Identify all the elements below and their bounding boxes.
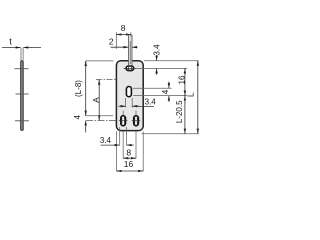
ext bottom <box>142 133 199 135</box>
dim 4 right arrows <box>168 82 170 89</box>
dim 2 line with inward arrows <box>111 46 129 48</box>
A dimension line <box>98 80 100 86</box>
dimension t line with inward arrows <box>2 47 21 49</box>
ext C <box>133 87 172 89</box>
ext lines below middle slot <box>125 98 127 108</box>
ext top hole center <box>136 67 187 69</box>
dim L-20.5 <box>184 96 186 101</box>
ext lines from bottom slot edges <box>119 127 121 145</box>
middle slot (vertical obround) <box>126 87 131 97</box>
dimension t extension lines <box>20 48 22 61</box>
svg-text:3.4: 3.4 <box>100 136 112 145</box>
svg-text:t: t <box>9 37 12 47</box>
dim L <box>197 61 199 66</box>
ext D <box>133 95 187 97</box>
svg-text:3.4: 3.4 <box>145 98 157 107</box>
(L-8) dimension line <box>85 61 87 67</box>
dim 4 left lower arrow <box>85 121 87 133</box>
svg-text:8: 8 <box>126 148 131 158</box>
(L-8) top extension line <box>86 60 114 62</box>
leader to 3.4 label <box>132 105 154 107</box>
bottom slot right <box>132 111 141 126</box>
top hole (obround) <box>124 65 137 71</box>
dim 16 bottom <box>117 170 121 172</box>
svg-text:8: 8 <box>121 23 126 33</box>
dim 8 line <box>116 34 119 36</box>
dim 3.4 middle arrows <box>118 105 125 107</box>
svg-text:16: 16 <box>124 159 134 169</box>
dim 16 right <box>184 69 186 74</box>
svg-text:L-20.5: L-20.5 <box>175 100 184 123</box>
ext plate top <box>144 60 199 62</box>
plate body <box>116 61 143 131</box>
svg-text:3.4: 3.4 <box>152 44 161 56</box>
ext lines from plate sides <box>115 131 117 171</box>
svg-text:2: 2 <box>109 37 114 47</box>
side centerline tick bottom <box>15 120 29 122</box>
ext line y=115.8 <box>86 115 114 117</box>
bottom slot left <box>119 111 128 126</box>
dim 8 bottom <box>123 157 126 159</box>
side plate <box>21 61 24 131</box>
2mm slot band above plate <box>129 35 133 66</box>
svg-text:4: 4 <box>73 115 82 120</box>
svg-text:16: 16 <box>177 75 186 84</box>
svg-text:(L-8): (L-8) <box>74 80 83 97</box>
svg-text:L: L <box>186 92 196 97</box>
svg-text:4: 4 <box>161 89 170 94</box>
dim 3.4 top-right arrows <box>156 55 158 61</box>
bottom slots centerline (left, dash-dot) <box>86 120 117 122</box>
dim 8 extension line left <box>115 32 117 49</box>
ext lines from bottom slot centers <box>122 131 124 158</box>
A top dash-dot line <box>96 79 116 81</box>
side centerline tick top <box>15 68 29 70</box>
dim 3.4 bottom <box>101 144 120 146</box>
svg-text:A: A <box>91 97 101 103</box>
side centerline tick middle <box>16 93 29 95</box>
